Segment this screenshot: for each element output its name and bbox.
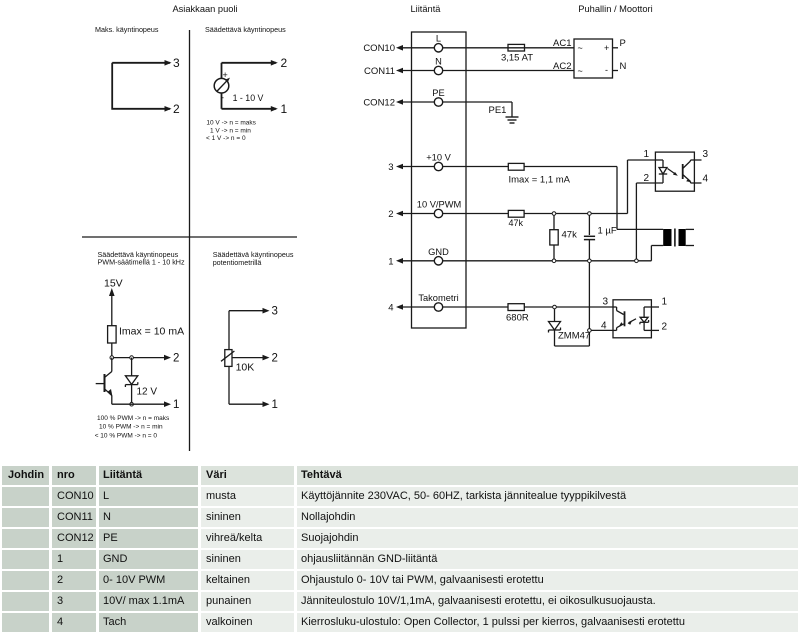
svg-text:-: - (221, 93, 224, 103)
svg-text:GND: GND (428, 247, 449, 257)
svg-text:+: + (223, 70, 228, 80)
svg-text:1 - 10 V: 1 - 10 V (233, 93, 264, 103)
svg-text:15V: 15V (104, 278, 123, 290)
svg-text:1: 1 (644, 149, 650, 160)
svg-text:1: 1 (281, 102, 288, 116)
svg-text:2: 2 (281, 56, 288, 70)
svg-text:4: 4 (703, 174, 709, 185)
svg-text:CON10: CON10 (363, 43, 395, 54)
svg-text:1: 1 (173, 399, 179, 411)
svg-text:10 V -> n = maks: 10 V -> n = maks (206, 120, 256, 127)
svg-text:Takometri: Takometri (418, 293, 458, 303)
svg-text:< 1 V -> n = 0: < 1 V -> n = 0 (206, 135, 246, 142)
svg-text:Liitäntä: Liitäntä (411, 4, 442, 14)
svg-text:2: 2 (173, 353, 179, 365)
svg-text:AC1: AC1 (553, 38, 571, 49)
svg-text:10K: 10K (236, 362, 255, 374)
svg-text:1 V -> n = min: 1 V -> n = min (210, 128, 251, 135)
svg-text:2: 2 (272, 353, 278, 365)
svg-text:3: 3 (603, 297, 609, 308)
svg-text:680R: 680R (506, 313, 529, 324)
svg-text:1: 1 (272, 399, 278, 411)
svg-text:3,15 AT: 3,15 AT (501, 53, 533, 64)
svg-text:P: P (620, 38, 626, 49)
svg-text:Säädettävä käyntinopeus: Säädettävä käyntinopeus (205, 25, 286, 34)
svg-text:PE1: PE1 (489, 105, 507, 116)
svg-text:3: 3 (703, 149, 709, 160)
svg-text:< 10 % PWM -> n = 0: < 10 % PWM -> n = 0 (95, 432, 158, 439)
svg-text:L: L (436, 34, 441, 44)
svg-text:Imax = 10 mA: Imax = 10 mA (119, 326, 184, 338)
svg-text:100 % PWM -> n = maks: 100 % PWM -> n = maks (97, 415, 170, 422)
svg-text:2: 2 (644, 173, 650, 184)
svg-text:3: 3 (388, 162, 393, 173)
svg-text:ZMM47: ZMM47 (558, 331, 590, 342)
svg-text:N: N (620, 61, 627, 72)
svg-text:3: 3 (173, 56, 180, 70)
svg-text:Asiakkaan puoli: Asiakkaan puoli (172, 4, 237, 14)
svg-text:~: ~ (578, 66, 583, 76)
svg-text:47k: 47k (562, 230, 578, 241)
svg-text:potentiometrillä: potentiometrillä (213, 258, 262, 267)
svg-text:2: 2 (662, 322, 668, 333)
svg-text:~: ~ (578, 43, 583, 53)
svg-text:PWM-säätimellä 1 - 10 kHz: PWM-säätimellä 1 - 10 kHz (98, 258, 185, 267)
svg-text:N: N (435, 57, 442, 67)
svg-text:1 µF: 1 µF (598, 226, 617, 237)
svg-text:10 % PWM -> n = min: 10 % PWM -> n = min (99, 424, 163, 431)
svg-text:1: 1 (388, 257, 393, 268)
svg-text:Puhallin / Moottori: Puhallin / Moottori (578, 4, 652, 14)
svg-text:-: - (605, 65, 608, 75)
svg-text:10 V/PWM: 10 V/PWM (417, 200, 461, 210)
svg-text:CON11: CON11 (364, 66, 395, 77)
svg-text:4: 4 (601, 321, 607, 332)
svg-text:PE: PE (432, 88, 444, 98)
svg-text:4: 4 (388, 303, 393, 314)
svg-text:12 V: 12 V (137, 387, 158, 398)
svg-text:2: 2 (173, 102, 180, 116)
svg-text:CON12: CON12 (363, 97, 395, 108)
svg-text:Maks. käyntinopeus: Maks. käyntinopeus (95, 25, 159, 34)
svg-text:1: 1 (662, 297, 668, 308)
svg-text:+: + (604, 43, 609, 53)
svg-text:3: 3 (272, 306, 278, 318)
svg-text:+10 V: +10 V (426, 153, 451, 163)
svg-text:Imax = 1,1 mA: Imax = 1,1 mA (509, 175, 571, 186)
svg-text:2: 2 (388, 209, 393, 220)
svg-text:AC2: AC2 (553, 61, 571, 72)
svg-text:47k: 47k (509, 218, 524, 228)
